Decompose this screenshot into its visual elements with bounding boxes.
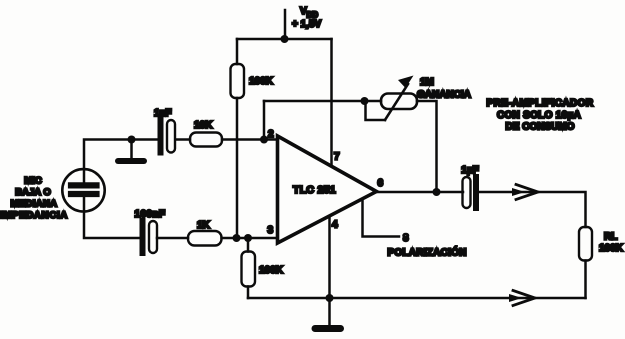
svg-text:6: 6	[378, 178, 384, 189]
wire 100K top resistor upper lead	[236, 39, 239, 64]
wire output to RL	[479, 192, 586, 227]
node junction dot divider/pin3	[233, 234, 241, 242]
svg-text:IMPEDANCIA: IMPEDANCIA	[0, 210, 68, 221]
node junction dot mic/ground	[128, 136, 136, 144]
capacitor C3 1uF output outline plate	[463, 177, 471, 208]
svg-text:100nF: 100nF	[135, 209, 166, 220]
svg-text:TLC 251: TLC 251	[293, 184, 336, 196]
wire 1K to op-amp pin3	[222, 237, 278, 240]
resistor R 1K	[188, 231, 222, 246]
ground bar near mic	[118, 158, 144, 164]
svg-text:+ 1,5V: + 1,5V	[292, 19, 322, 30]
node junction dot pin4/ground	[326, 294, 334, 302]
svg-text:GANANCIA: GANANCIA	[417, 90, 471, 101]
svg-text:BAJA O: BAJA O	[15, 187, 51, 198]
pot wiper diagonal arrow	[385, 84, 408, 120]
capacitor C1 1uF input solid plate	[158, 120, 164, 153]
svg-text:CON SOLO 10µA: CON SOLO 10µA	[497, 110, 581, 121]
svg-text:10K: 10K	[194, 120, 213, 131]
capacitor C2 100nF outline plate	[149, 221, 157, 253]
microphone element top bar	[71, 182, 97, 188]
wire ground stub	[328, 298, 331, 325]
svg-text:DE CONSUMO: DE CONSUMO	[506, 122, 575, 133]
resistor R 100K lower	[242, 252, 256, 287]
wire pot right lead	[417, 101, 437, 192]
svg-text:1µF: 1µF	[154, 108, 171, 119]
wire 10K to op-amp pin2	[222, 138, 278, 141]
arrow top output chevron	[516, 185, 538, 200]
microphone MIC body circle	[62, 169, 104, 211]
svg-text:100K: 100K	[249, 76, 274, 87]
potentiometer P1 1M body	[381, 94, 417, 110]
wire 100K bottom lead down to pin3 node	[236, 98, 239, 238]
svg-text:7: 7	[334, 152, 340, 163]
wire input top to pin2	[176, 138, 190, 141]
wire pin8 lead	[363, 199, 400, 237]
wire ground stub near mic	[130, 140, 133, 160]
wire RL bottom lead	[584, 261, 587, 299]
wire lower 100K top lead	[247, 238, 250, 252]
resistor RL 100K body	[579, 227, 592, 261]
node junction dot pin2/feedback	[260, 136, 268, 144]
wire lower 100K bottom lead	[247, 287, 250, 299]
svg-text:1µF: 1µF	[461, 165, 478, 176]
svg-text:PRE-AMPLIFICADOR: PRE-AMPLIFICADOR	[487, 98, 594, 109]
wire pot wiper return loop	[366, 101, 386, 120]
wire VDD stub	[284, 10, 287, 39]
wire pin7 supply lead	[330, 39, 333, 166]
capacitor C3 1uF output solid plate	[473, 177, 479, 208]
svg-text:MIC: MIC	[24, 176, 42, 187]
arrow top output solid head	[512, 188, 525, 196]
node junction dot VDD	[281, 35, 289, 43]
node junction dot lower 100K/pin3	[244, 234, 252, 242]
wire op-amp pin4 lead	[328, 217, 331, 298]
wire bottom ground rail	[248, 297, 586, 300]
wire top supply rail	[237, 38, 332, 41]
resistor R 100K top	[231, 64, 245, 98]
node junction dot feedback/pot	[361, 97, 369, 105]
svg-text:RL: RL	[604, 232, 617, 243]
svg-text:4: 4	[332, 220, 338, 231]
wire mic top lead to cap	[84, 140, 158, 185]
svg-text:POLARIZACIÓN: POLARIZACIÓN	[388, 246, 467, 259]
capacitor C2 100nF solid plate	[140, 221, 146, 253]
wire mic bottom lead	[84, 196, 139, 238]
pot wiper arrowhead	[398, 76, 414, 89]
capacitor C1 1uF input outline plate	[167, 120, 175, 153]
svg-text:8: 8	[403, 233, 409, 244]
wire feedback horizontal to pot	[264, 100, 381, 103]
resistor R 10K	[190, 133, 222, 147]
arrow bottom rail solid head	[509, 294, 522, 302]
wire feedback vertical from pin2 node	[263, 101, 266, 140]
svg-text:100K: 100K	[599, 243, 624, 254]
ground bar bottom	[315, 325, 341, 332]
svg-text:3: 3	[268, 225, 274, 236]
wire pin6 output	[377, 191, 464, 194]
svg-text:1M: 1M	[420, 77, 434, 88]
wire 100nF to 1K	[157, 237, 188, 240]
node junction dot output/pot	[433, 188, 441, 196]
op-amp U1 TLC251 triangle	[278, 136, 377, 243]
arrow bottom rail chevron	[513, 291, 535, 306]
svg-text:MEDIANA: MEDIANA	[11, 199, 58, 210]
svg-text:1K: 1K	[197, 220, 211, 231]
microphone element bottom bar	[71, 191, 97, 197]
svg-text:100K: 100K	[259, 265, 284, 276]
